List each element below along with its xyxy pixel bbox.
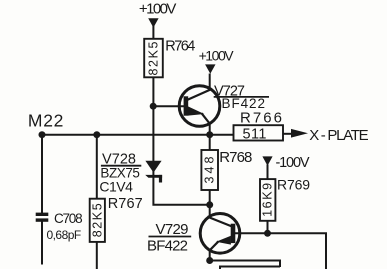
svg-text:R769: R769 [277,177,310,193]
svg-text:82K5: 82K5 [147,41,161,75]
svg-text:X - PLATE: X - PLATE [309,127,369,144]
svg-text:348: 348 [203,156,217,183]
svg-text:82K5: 82K5 [90,203,104,237]
svg-text:R764: R764 [165,38,195,54]
svg-text:M22: M22 [28,111,64,131]
svg-text:R767: R767 [108,196,143,212]
svg-text:-100V: -100V [276,155,310,171]
svg-text:C708: C708 [54,211,83,226]
svg-text:0,68pF: 0,68pF [47,228,82,242]
svg-text:+100V: +100V [199,47,235,63]
svg-text:16K9: 16K9 [261,183,275,217]
svg-text:511: 511 [243,127,267,143]
svg-text:BF422: BF422 [147,237,188,254]
svg-text:R766: R766 [240,109,282,126]
svg-text:R768: R768 [219,149,252,166]
svg-text:C1V4: C1V4 [99,179,133,195]
svg-text:+100V: +100V [139,1,177,18]
